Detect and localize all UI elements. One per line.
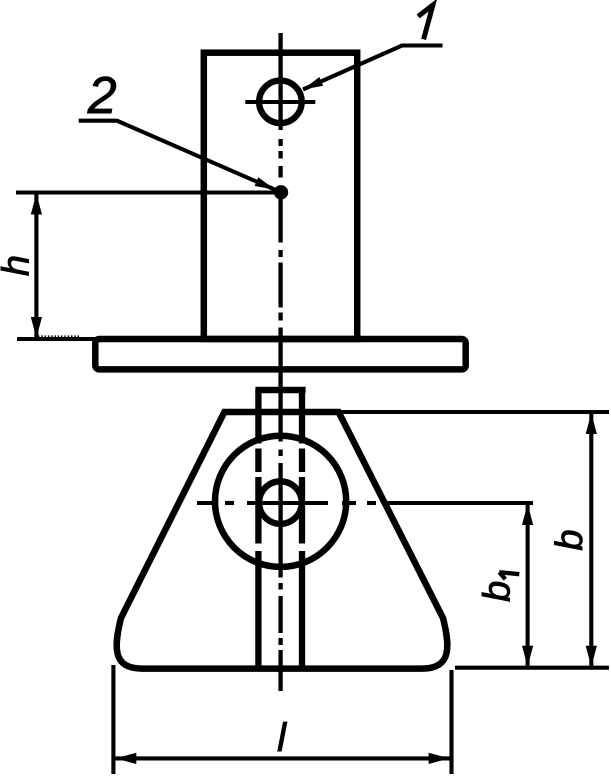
h top arrowhead xyxy=(31,194,42,215)
h bottom arrowhead xyxy=(31,317,42,338)
svg-text:b: b xyxy=(477,581,519,602)
bore small circle xyxy=(259,481,302,524)
vertical dash-dot centerline xyxy=(278,33,282,691)
mounting hole circle (item 1) xyxy=(259,81,302,124)
leader 2 arrowhead xyxy=(255,177,275,189)
horizontal dash-dot centerline xyxy=(197,501,533,505)
leader 2 line xyxy=(79,121,281,193)
svg-text:b: b xyxy=(549,529,591,550)
b1 top arrowhead xyxy=(522,504,533,525)
h dimension bottom extension line xyxy=(17,337,95,341)
b dimension bottom extension line xyxy=(455,666,609,670)
serration hatch above extension line xyxy=(38,335,81,337)
svg-text:h: h xyxy=(0,255,38,276)
b bottom arrowhead xyxy=(586,646,597,667)
b1 dimension line xyxy=(526,504,530,667)
h dimension top extension line xyxy=(16,190,274,194)
leader 1 line xyxy=(303,46,443,90)
svg-text:2: 2 xyxy=(87,67,117,125)
trapezoid base body (top view) xyxy=(117,412,448,669)
h dimension line xyxy=(34,195,38,338)
hole horizontal crosshair xyxy=(245,100,315,104)
l right arrowhead xyxy=(429,753,450,764)
b dimension line xyxy=(589,414,593,666)
slot right side line xyxy=(299,390,305,666)
upper body rectangle (bracket column, front view) xyxy=(204,53,357,339)
l dimension right extension line xyxy=(449,670,453,774)
b1 bottom arrowhead xyxy=(522,646,533,667)
l dimension line xyxy=(116,756,450,760)
label 1 xyxy=(418,5,433,39)
base flange plate xyxy=(95,339,465,369)
l left arrowhead xyxy=(115,753,136,764)
boss large circle xyxy=(215,436,346,567)
leader 1 arrowhead xyxy=(303,77,323,90)
l dimension left extension line xyxy=(111,665,115,774)
slot left side line xyxy=(255,390,261,666)
b top arrowhead xyxy=(586,413,597,434)
node point 2 (filled dot) xyxy=(274,185,288,199)
label b1 xyxy=(477,581,519,602)
svg-text:l: l xyxy=(277,716,287,760)
lower view tab top edge xyxy=(255,387,305,394)
b dimension top extension line xyxy=(340,410,609,414)
